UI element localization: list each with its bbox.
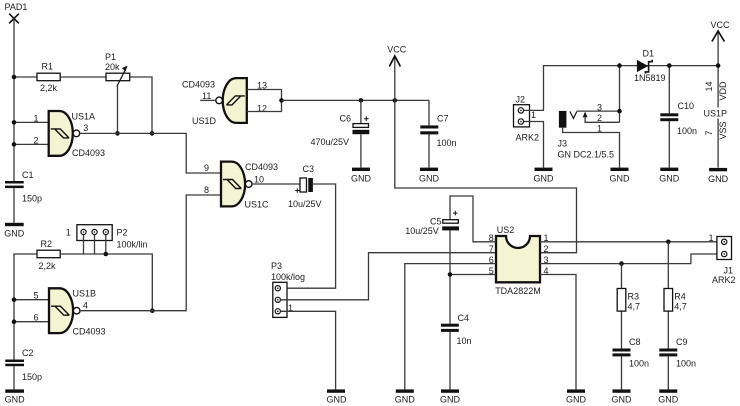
wire J3 switch pins to diode node xyxy=(617,63,622,122)
svg-text:100k/log: 100k/log xyxy=(271,272,305,282)
wire US1B output node to US1C pin 8 xyxy=(80,195,221,311)
wire US2 pin 3 to J1 lower pin xyxy=(540,254,717,266)
svg-text:4: 4 xyxy=(83,301,88,311)
svg-text:13: 13 xyxy=(257,80,267,90)
svg-text:GND: GND xyxy=(610,173,631,183)
svg-text:2: 2 xyxy=(544,244,549,254)
svg-text:9: 9 xyxy=(204,163,209,173)
op-amp gate US1A (CD4093 NAND) xyxy=(34,111,106,158)
svg-text:7: 7 xyxy=(704,130,714,135)
svg-text:100k/lin: 100k/lin xyxy=(117,240,148,250)
wire P3 pin 1 to ground xyxy=(281,311,336,389)
svg-text:7: 7 xyxy=(489,244,494,254)
svg-text:1: 1 xyxy=(709,233,714,243)
svg-text:4,7: 4,7 xyxy=(674,302,687,312)
svg-text:8: 8 xyxy=(204,185,209,195)
svg-text:GND: GND xyxy=(708,174,729,184)
connector J2 ARK2 xyxy=(514,94,540,142)
wire C2 to ground xyxy=(13,366,15,389)
svg-text:C4: C4 xyxy=(458,313,470,323)
svg-text:GND: GND xyxy=(419,173,440,183)
svg-text:US1C: US1C xyxy=(245,199,270,209)
svg-text:CD4093: CD4093 xyxy=(245,162,278,172)
ground J2 xyxy=(534,168,555,184)
wire net R2/US1B-inputs/C2 rail xyxy=(12,254,49,360)
svg-text:150p: 150p xyxy=(22,372,42,382)
svg-text:470u/25V: 470u/25V xyxy=(311,137,350,147)
wire C8 to ground xyxy=(621,356,623,389)
resistor R2 xyxy=(37,239,60,271)
svg-text:GND: GND xyxy=(327,395,348,405)
pad PAD1 xyxy=(5,2,28,23)
ground C6 xyxy=(351,168,372,184)
svg-text:R1: R1 xyxy=(42,62,54,72)
capacitor C1 xyxy=(5,170,42,204)
svg-text:GND: GND xyxy=(5,395,26,405)
svg-text:US1D: US1D xyxy=(192,116,217,126)
svg-text:ARK2: ARK2 xyxy=(712,275,736,285)
svg-text:VDD: VDD xyxy=(718,81,728,101)
svg-text:14: 14 xyxy=(704,81,714,91)
svg-text:3: 3 xyxy=(83,123,88,133)
wire J2 lower pin to ground xyxy=(524,122,544,168)
svg-text:GND: GND xyxy=(658,395,679,405)
svg-text:GND: GND xyxy=(4,229,25,239)
capacitor C3 (electrolytic) xyxy=(288,164,322,209)
svg-text:C2: C2 xyxy=(22,348,34,358)
svg-text:GND: GND xyxy=(440,395,461,405)
svg-text:VCC: VCC xyxy=(387,45,407,55)
svg-text:R3: R3 xyxy=(628,292,640,302)
potentiometer P2 xyxy=(66,225,148,250)
ground US2 pin 6 xyxy=(395,389,416,404)
capacitor C6 (electrolytic) xyxy=(311,100,370,167)
ground US2 pin 4 xyxy=(566,389,587,404)
svg-text:US1P: US1P xyxy=(704,109,728,119)
svg-text:VCC: VCC xyxy=(711,20,731,30)
capacitor C7 xyxy=(420,100,456,167)
ground C8 xyxy=(612,389,633,404)
svg-text:ARK2: ARK2 xyxy=(516,133,540,143)
svg-text:1: 1 xyxy=(597,124,602,134)
wire C9 to ground xyxy=(667,356,669,389)
wire US1D pin 11 stub xyxy=(200,99,216,101)
svg-text:PAD1: PAD1 xyxy=(5,2,28,12)
wire R1 to P1 xyxy=(60,76,106,78)
svg-text:C5: C5 xyxy=(430,216,442,226)
svg-text:11: 11 xyxy=(202,91,211,101)
svg-text:GND: GND xyxy=(395,395,416,405)
svg-text:6: 6 xyxy=(34,313,39,323)
svg-text:C3: C3 xyxy=(303,164,315,174)
op-amp gate US1C (CD4093 NAND) xyxy=(204,162,278,210)
wire US2 pin 8 to C5 top xyxy=(450,196,496,242)
svg-text:2: 2 xyxy=(34,135,39,145)
svg-text:VSS: VSS xyxy=(718,121,728,139)
power VCC arrow left xyxy=(387,45,407,101)
diode D1 1N5819 xyxy=(634,49,666,84)
svg-text:P3: P3 xyxy=(271,261,282,271)
wire R2 to US1B output node xyxy=(60,254,154,313)
resistor R1 xyxy=(37,62,60,94)
svg-text:TDA2822M: TDA2822M xyxy=(495,286,541,296)
ground C10 xyxy=(659,168,680,184)
svg-text:C7: C7 xyxy=(437,114,449,124)
capacitor C2 xyxy=(5,348,42,382)
svg-text:10u/25V: 10u/25V xyxy=(288,199,322,209)
wire US2 pin 4 to ground xyxy=(540,275,576,390)
wire C3 to P3 pin top xyxy=(287,184,336,288)
svg-text:100n: 100n xyxy=(629,358,649,368)
potentiometer P1 xyxy=(105,52,130,87)
amplifier US2 TDA2822M xyxy=(489,225,549,296)
svg-text:P2: P2 xyxy=(117,227,128,237)
svg-text:R2: R2 xyxy=(41,239,53,249)
svg-text:D1: D1 xyxy=(643,49,655,59)
svg-text:C10: C10 xyxy=(678,101,695,111)
svg-text:4,7: 4,7 xyxy=(628,302,641,312)
svg-text:R4: R4 xyxy=(674,292,686,302)
wire C1 to ground xyxy=(13,188,15,223)
svg-text:CD4093: CD4093 xyxy=(73,327,106,337)
svg-text:J3: J3 xyxy=(558,139,568,149)
power VCC arrow right xyxy=(711,20,731,65)
wire US1D pins 13/12 tie xyxy=(247,90,284,112)
wire US1C output to C3 xyxy=(252,183,300,185)
svg-text:1N5819: 1N5819 xyxy=(634,73,666,83)
wire C5 bottom to US2 pin 5 and C4 xyxy=(448,230,496,323)
svg-text:1: 1 xyxy=(34,113,39,123)
wire VCC to US2 pin 2 xyxy=(395,100,577,252)
power pins US1P (VDD/VSS of US1) xyxy=(704,63,732,167)
ground P3 xyxy=(327,389,348,404)
wire US2 pin 6 to ground xyxy=(405,264,496,390)
ground C4 xyxy=(440,389,461,404)
wire J2 upper pin to supply rail xyxy=(524,66,719,111)
svg-text:C9: C9 xyxy=(676,337,688,347)
capacitor C9 xyxy=(659,337,696,369)
potentiometer P3 xyxy=(271,261,305,318)
capacitor C5 (electrolytic) xyxy=(405,211,459,236)
wire P1 wiper drop xyxy=(115,84,120,136)
ground C7 xyxy=(419,168,440,184)
svg-text:3: 3 xyxy=(597,102,602,112)
resistor R4 xyxy=(664,242,687,349)
wire VCC node to C6 C7 xyxy=(282,98,430,103)
svg-text:C1: C1 xyxy=(22,170,34,180)
ground US1P xyxy=(708,168,729,184)
svg-text:J1: J1 xyxy=(724,265,734,275)
capacitor C10 xyxy=(660,63,697,167)
svg-text:CD4093: CD4093 xyxy=(72,148,105,158)
svg-text:CD4093: CD4093 xyxy=(182,80,215,90)
wire net PAD1/R1/US1A-inputs/C1 rail xyxy=(12,19,49,182)
wire C4 to ground xyxy=(449,332,451,390)
wire P1 right terminal drop xyxy=(130,77,155,136)
wire US2 pin 1 to J1 xyxy=(540,240,717,245)
svg-text:GND: GND xyxy=(612,395,633,405)
svg-text:C6: C6 xyxy=(340,114,352,124)
svg-text:2: 2 xyxy=(597,113,602,123)
capacitor C4 xyxy=(441,313,472,346)
svg-text:10u/25V: 10u/25V xyxy=(405,226,439,236)
op-amp gate US1B (CD4093 NAND) xyxy=(34,288,106,336)
svg-text:100n: 100n xyxy=(677,126,697,136)
svg-text:GND: GND xyxy=(566,395,587,405)
ground C2 xyxy=(5,389,26,404)
svg-text:GND: GND xyxy=(351,173,372,183)
op-amp gate US1D (CD4093 NAND, mirrored) xyxy=(182,78,267,126)
ground C9 xyxy=(658,389,679,404)
svg-text:GND: GND xyxy=(534,173,555,183)
ground C1 xyxy=(4,223,25,239)
wire P3 wiper to US2 pin 7 xyxy=(281,253,497,300)
svg-text:20k: 20k xyxy=(105,62,120,72)
svg-text:US1A: US1A xyxy=(72,112,96,122)
svg-text:GND: GND xyxy=(659,173,680,183)
svg-text:10: 10 xyxy=(254,174,264,184)
resistor R3 xyxy=(617,264,640,349)
connector J3 DC jack GN DC2.1/5.5 xyxy=(558,102,620,167)
svg-text:US1B: US1B xyxy=(73,289,97,299)
connector J1 ARK2 xyxy=(709,233,736,285)
svg-text:P1: P1 xyxy=(105,52,116,62)
svg-text:GN DC2.1/5.5: GN DC2.1/5.5 xyxy=(558,150,615,160)
svg-text:2,2k: 2,2k xyxy=(40,83,58,93)
svg-text:2,2k: 2,2k xyxy=(39,261,57,271)
svg-text:J2: J2 xyxy=(516,94,526,104)
svg-text:C8: C8 xyxy=(629,337,641,347)
wire US1A output node to US1C pin 9 xyxy=(80,133,221,173)
svg-text:10n: 10n xyxy=(457,336,472,346)
svg-text:US2: US2 xyxy=(497,225,515,235)
svg-text:150p: 150p xyxy=(22,194,42,204)
svg-text:1: 1 xyxy=(531,110,536,120)
wire P2 pin drops to R2 net xyxy=(84,235,109,257)
svg-text:100n: 100n xyxy=(437,138,457,148)
capacitor C8 xyxy=(613,337,650,369)
svg-text:5: 5 xyxy=(34,291,39,301)
svg-text:1: 1 xyxy=(66,227,71,237)
svg-text:100n: 100n xyxy=(676,358,696,368)
ground J3 xyxy=(610,168,631,184)
